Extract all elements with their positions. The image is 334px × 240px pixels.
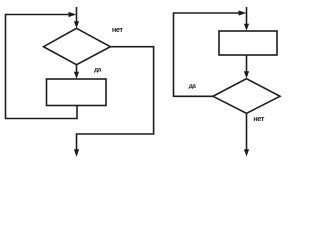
- arrowhead: right entry into rect (down): [244, 24, 249, 31]
- wire: left нет branch (diamond right, down, left, exit): [77, 47, 154, 150]
- wire: right rect output to diamond: [246, 55, 248, 72]
- label да (right diamond): [189, 84, 196, 89]
- wire: left loop-back (rect bottom, left side, top): [6, 15, 78, 119]
- wire: right нет exit: [246, 113, 248, 149]
- label нет (right diamond): [254, 117, 264, 121]
- arrowhead: left exit (down): [74, 149, 79, 157]
- arrowhead: left да into rect (down): [74, 72, 79, 79]
- process box P1 (left): [47, 79, 107, 106]
- wire: left да branch diamond bottom to rect: [76, 65, 78, 72]
- decision diamond D2 (right): [213, 79, 280, 114]
- arrowhead: left entry into diamond (down): [74, 21, 79, 28]
- arrowhead: into left junction (right-pointing): [69, 12, 77, 17]
- wire: right entry vertical: [246, 7, 248, 24]
- label нет (left diamond): [112, 28, 122, 32]
- wire: right loop-back да branch (diamond left, up, top): [174, 13, 240, 96]
- arrowhead: right нет exit (down): [244, 149, 249, 156]
- decision diamond D1 (left): [44, 28, 111, 64]
- arrowhead: into right junction (right-pointing): [239, 10, 247, 15]
- label да (left diamond): [94, 68, 101, 73]
- wire: left entry vertical: [76, 7, 78, 22]
- arrowhead: right rect output into diamond (down): [244, 71, 249, 78]
- process box P2 (right): [219, 31, 277, 55]
